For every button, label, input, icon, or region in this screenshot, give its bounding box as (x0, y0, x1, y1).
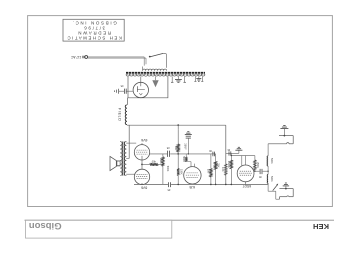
B+ rail wire (127, 124, 226, 126)
rectifier tube V1 envelope (133, 82, 148, 97)
svg-text:FIELD: FIELD (117, 108, 121, 122)
svg-text:10K: 10K (221, 167, 224, 172)
power transformer T1 primary winding (143, 69, 167, 71)
border frame of schematic sheet (28, 16, 333, 207)
grid stopper to driver (185, 154, 187, 157)
ground between leads B (198, 77, 200, 79)
svg-text:6V6: 6V6 (141, 138, 147, 142)
coupling cap C5 (259, 169, 261, 174)
chassis ground sideways at C1 (118, 89, 120, 94)
svg-text:GIBSON INC.: GIBSON INC. (71, 20, 117, 25)
ground between leads A (177, 77, 179, 80)
wire bottom bus up to P2 bottom (267, 183, 269, 184)
B+ feed wire to output transformer (128, 125, 130, 158)
filament winding leads A (171, 77, 173, 83)
plate load resistor R4 on B+ stub (177, 129, 179, 144)
rectifier tube V1 internals (140, 77, 142, 87)
svg-text:1MEG: 1MEG (227, 161, 230, 168)
svg-text:100K: 100K (179, 169, 182, 175)
B+ rail right-end drop wire (225, 125, 227, 164)
svg-text:3/7/96: 3/7/96 (83, 26, 105, 31)
output transformer T2 primary (125, 142, 127, 176)
R2 wire to grid-leak vertical (158, 163, 163, 165)
svg-text:117 AC: 117 AC (70, 55, 81, 59)
resistor R7 drop at 215.6 (215, 154, 217, 162)
grid cap C4 and wire (226, 152, 239, 154)
svg-text:500K: 500K (270, 158, 273, 164)
B+ rail junction node (177, 124, 179, 126)
svg-text:KEH: KEH (313, 222, 329, 231)
power tube V2 6V6 envelope (134, 145, 149, 160)
cathode bias resistor R2 (142, 163, 150, 165)
wire P2 to jack sleeve (267, 183, 269, 191)
wire P1 to P2 (267, 166, 269, 174)
svg-text:400: 400 (151, 159, 156, 162)
resistor R5 below plate node (177, 154, 179, 169)
grid-leak resistor R3 vertical (162, 154, 164, 157)
power transformer T1 core (126, 71, 205, 73)
driver tube V4 second grid stub (193, 164, 195, 167)
AC plug symbol (85, 56, 88, 59)
wire T2 to 6V6 no.1 plate (126, 142, 136, 144)
P2 wiper arrow (273, 185, 278, 191)
bypass cap + ground above driver (185, 134, 192, 136)
svg-text:500K: 500K (166, 166, 169, 172)
svg-text:KEH SCHEMATIC: KEH SCHEMATIC (66, 35, 122, 40)
resistor R6 drop at 210.9 (210, 154, 212, 169)
svg-text:5000: 5000 (182, 156, 185, 162)
wire 6V6 grid to coupling cap (150, 153, 167, 155)
ground above 2nd stage (238, 150, 240, 153)
svg-text:50K: 50K (174, 146, 177, 151)
bottom bus junction nodes (177, 184, 179, 186)
svg-text:25K: 25K (217, 163, 220, 168)
plate resistor R9 (254, 156, 256, 160)
resistor R1 on B+ drop (225, 164, 228, 175)
svg-text:500K: 500K (270, 176, 273, 182)
AC drop wires to primary (143, 57, 145, 66)
footer rule line (25, 219, 335, 221)
cathode junction node (141, 164, 143, 166)
Gibson logo box (26, 220, 172, 238)
power switch S1 (149, 56, 151, 58)
plate node junction (177, 153, 179, 155)
svg-text:50K: 50K (206, 169, 209, 174)
driver tube V4 internals (187, 172, 199, 174)
center-tap triangle ground (152, 80, 158, 87)
title block box (63, 19, 124, 41)
J1 ground (284, 135, 286, 137)
input bus vertical wire (267, 144, 269, 156)
series cap C3 to 2nd stage (211, 153, 216, 155)
input jack J1 body (279, 135, 293, 137)
AC line pair wires (88, 56, 144, 58)
plate wire to C5 (254, 170, 260, 172)
power tube V2 internals (137, 149, 148, 151)
HV secondary loop wires (128, 77, 168, 98)
svg-text:250K: 250K (159, 158, 162, 164)
wire C2 to driver plate node (170, 153, 211, 155)
capacitor C1 at rectifier cathode (123, 89, 125, 94)
wire rectifier loop to field coil (126, 98, 128, 105)
output transformer T2 core (122, 142, 124, 176)
svg-text:25MF: 25MF (184, 143, 187, 150)
bottom bus wire (134, 183, 168, 185)
wire R1 to bottom rail (225, 175, 227, 184)
J2 ground (285, 188, 287, 190)
power transformer T1 secondary winding (126, 74, 205, 76)
volume pot P1 winding (267, 156, 268, 166)
volume pot P2 winding (266, 174, 269, 183)
driver tube V4 envelope (184, 167, 201, 184)
power tube V3 6V6 envelope (134, 169, 149, 184)
speaker (110, 156, 116, 170)
filament winding leads B (194, 77, 196, 82)
svg-text:6J5: 6J5 (189, 185, 195, 189)
power tube V3 internals (137, 174, 148, 176)
tube V5 internals (240, 170, 252, 172)
svg-text:6V6: 6V6 (141, 186, 147, 190)
series cap C6 in bottom bus (168, 182, 170, 187)
svg-text:REDRAWN: REDRAWN (77, 30, 111, 35)
2nd stage top wire (231, 155, 255, 157)
svg-text:250K: 250K (256, 162, 259, 168)
coupling capacitor C2 (167, 151, 169, 157)
wire T2 to 6V6 no.2 plate (126, 173, 135, 175)
V5 grid stubs (241, 156, 243, 166)
output transformer T2 secondary (120, 142, 122, 176)
svg-text:Gibson: Gibson (29, 220, 62, 231)
tube V5 6SQ7 envelope (237, 165, 254, 182)
input jack J2 body (279, 188, 293, 190)
wire C5 to volume pot (263, 170, 269, 172)
field coil L1 (125, 105, 127, 125)
resistor R8 to bottom rail (230, 156, 232, 161)
